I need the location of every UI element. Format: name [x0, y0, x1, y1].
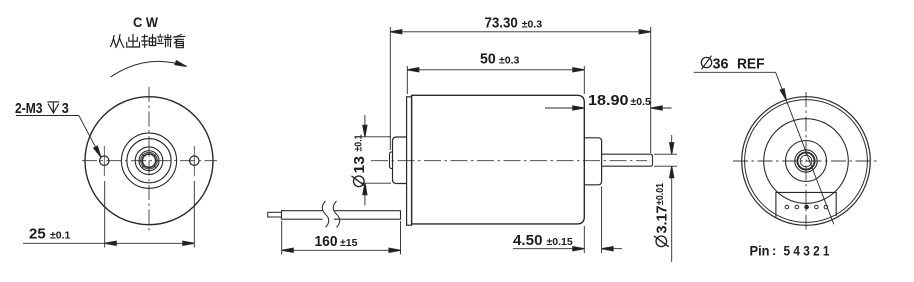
svg-text:±0.5: ±0.5: [631, 96, 652, 108]
svg-text:±0.1: ±0.1: [50, 230, 71, 242]
svg-text:36: 36: [713, 57, 729, 73]
svg-text:±0.3: ±0.3: [499, 55, 520, 67]
svg-text::: :: [772, 243, 776, 258]
svg-text:C W: C W: [133, 15, 158, 30]
svg-text:±15: ±15: [340, 237, 358, 249]
svg-text:2-M3: 2-M3: [15, 100, 43, 117]
svg-text:±0.15: ±0.15: [547, 236, 573, 248]
svg-text:±0.1: ±0.1: [353, 134, 365, 151]
svg-text:13: 13: [351, 156, 368, 174]
svg-text:3.17: 3.17: [654, 206, 671, 234]
svg-text:73.30: 73.30: [485, 15, 518, 32]
svg-text:5 4 3 2 1: 5 4 3 2 1: [784, 243, 830, 259]
svg-text:Pin: Pin: [750, 243, 770, 259]
svg-text:±0.01: ±0.01: [654, 183, 666, 205]
svg-text:50: 50: [480, 51, 496, 68]
svg-text:REF: REF: [737, 57, 765, 73]
svg-text:3: 3: [62, 100, 69, 117]
svg-text:160: 160: [315, 233, 338, 250]
svg-text:18.90: 18.90: [588, 92, 629, 109]
svg-text:4.50: 4.50: [513, 232, 543, 249]
svg-text:25: 25: [29, 226, 46, 243]
svg-text:±0.3: ±0.3: [522, 19, 543, 31]
